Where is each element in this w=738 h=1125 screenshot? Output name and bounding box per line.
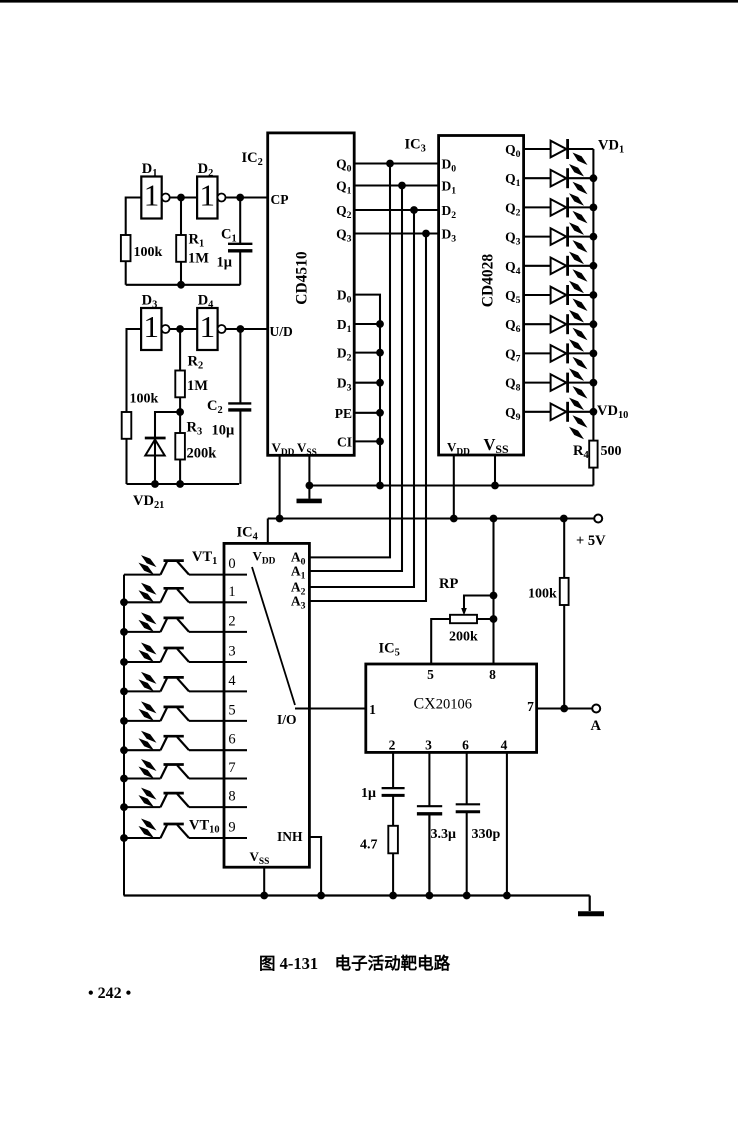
- phototransistor VT5: [124, 672, 247, 692]
- terminal +5V: [594, 515, 602, 523]
- capacitor C2 10u: [207, 329, 251, 484]
- op IC5 box CX20106: [366, 641, 537, 753]
- capacitor C1 1u: [217, 198, 253, 285]
- svg-text:4: 4: [501, 738, 508, 753]
- wire: bottom ground rail: [124, 894, 590, 896]
- phototransistor VT4: [124, 643, 247, 663]
- svg-text:1M: 1M: [188, 251, 209, 267]
- wire: IC4 VSS lead to ground rail: [263, 867, 265, 895]
- svg-text:1: 1: [200, 309, 216, 344]
- wire: IC3 VDD lead to +5V rail: [453, 455, 455, 519]
- resistor 100k (left of D1): [121, 235, 163, 261]
- IC3 Q0-Q9 pin labels: [505, 142, 521, 423]
- LED VD4: [524, 227, 594, 265]
- wire: IC5 pin8 lead up to +5V rail: [492, 519, 494, 665]
- svg-text:2: 2: [228, 613, 235, 629]
- wire: IC5 pin5 lead up to RP left: [431, 619, 450, 664]
- svg-text:1: 1: [144, 178, 160, 213]
- resistor 100k (left of D3): [122, 392, 159, 439]
- svg-text:RP: RP: [439, 576, 458, 592]
- resistor R1 1M: [176, 198, 209, 285]
- ground symbol (near IC2 VSS): [308, 486, 310, 499]
- wire: IC5 pin4 lead to ground rail: [506, 752, 508, 895]
- svg-text:200k: 200k: [449, 630, 478, 645]
- wire: phototransistor common left rail: [120, 575, 128, 896]
- wire: rail drop into IC4 VDD: [267, 519, 269, 544]
- svg-text:4: 4: [228, 673, 236, 689]
- capacitor 1u + resistor 4.7 on pin2: [360, 752, 405, 895]
- wire: D2 out to IC2 CP: [226, 196, 268, 198]
- svg-text:4.7: 4.7: [360, 838, 378, 853]
- svg-text:3: 3: [228, 644, 235, 660]
- svg-text:PE: PE: [335, 406, 352, 421]
- node: R2/R3/VD21 junction: [176, 408, 184, 416]
- wire: 100k bottom to osc2 rail: [125, 439, 127, 484]
- svg-text:3.3μ: 3.3μ: [431, 827, 457, 842]
- LED VD2: [524, 168, 594, 206]
- svg-text:7: 7: [228, 760, 235, 776]
- svg-text:CI: CI: [337, 434, 352, 449]
- wire: IC2 VSS lead down to VSS rail: [308, 455, 310, 485]
- svg-text:6: 6: [228, 732, 235, 748]
- phototransistor VT1: [124, 555, 247, 575]
- svg-text:100k: 100k: [134, 245, 163, 260]
- svg-text:0: 0: [228, 556, 235, 572]
- wire: IC2 Q3 to IC3 D3: [354, 232, 438, 234]
- wire: IC4 INH to ground rail: [309, 837, 321, 896]
- resistor R2 1M: [175, 329, 208, 412]
- resistor R3 200k: [175, 412, 217, 484]
- resistor 100k (pull-up to pin7): [528, 519, 569, 713]
- op IC4 box (analog multiplexer): [224, 525, 309, 868]
- gate D2 (inverter "1"): [197, 161, 225, 219]
- scan artifact: black top edge: [0, 0, 738, 3]
- wire: D1 input loop left via 100k: [126, 198, 142, 236]
- svg-text:CP: CP: [271, 192, 289, 207]
- svg-text:1: 1: [144, 309, 160, 344]
- LED VD10: [524, 402, 594, 440]
- LED VD1: [524, 139, 594, 177]
- LED VD5: [524, 256, 594, 293]
- svg-text:A: A: [591, 718, 602, 734]
- ground symbol (bottom right): [589, 896, 591, 912]
- LED VD7: [524, 314, 594, 352]
- wire: osc2 bottom rail: [127, 483, 240, 485]
- svg-text:CD4510: CD4510: [294, 251, 311, 305]
- svg-text:2: 2: [389, 738, 396, 753]
- svg-text:+ 5V: + 5V: [576, 533, 606, 549]
- svg-text:10μ: 10μ: [212, 423, 236, 439]
- wire: IC4 I/O to IC5 pin1: [295, 708, 366, 710]
- wire: D3 out to D4 in, node: [170, 328, 198, 330]
- wire: D3 input loop left via 100k: [127, 329, 142, 412]
- svg-text:1μ: 1μ: [217, 255, 233, 271]
- svg-text:1: 1: [228, 584, 235, 600]
- wire: Q0 bus down to IC4 A0: [309, 164, 390, 558]
- LED VD3: [524, 197, 594, 235]
- phototransistor VT9: [124, 788, 247, 808]
- svg-text:3: 3: [425, 738, 432, 753]
- svg-text:7: 7: [527, 699, 534, 714]
- wire: IC2 D0-D3/PE/CI common bus to VSS rail: [354, 295, 384, 486]
- svg-text:1: 1: [369, 702, 376, 717]
- wire: LED cathode rail: [590, 149, 598, 441]
- capacitor 3.3u on pin3: [417, 752, 456, 895]
- wire: VSS/ground rail (y=485.5): [309, 485, 593, 487]
- gate D3 (inverter "1"): [141, 293, 169, 351]
- gate D4 (inverter "1"): [197, 293, 225, 351]
- LED VD9: [524, 373, 594, 411]
- svg-text:CD4028: CD4028: [480, 254, 497, 308]
- IC4 selector diagonal: [252, 567, 295, 705]
- svg-text:1M: 1M: [187, 378, 208, 394]
- potentiometer RP 200k: [439, 576, 494, 645]
- phototransistor VT3: [124, 612, 247, 632]
- svg-text:1μ: 1μ: [361, 786, 376, 801]
- LED VD8: [524, 343, 594, 381]
- wire: IC2 VDD lead down to +5V rail: [279, 455, 281, 518]
- phototransistor VT8: [124, 759, 247, 779]
- svg-text:100k: 100k: [528, 587, 557, 602]
- wire: D1 out to D2 in, node: [170, 196, 197, 198]
- wire: Q1 bus down to IC4 A1: [309, 186, 402, 572]
- wire: IC5 pin7 to terminal A: [537, 708, 593, 710]
- op IC2 box CD4510: [242, 133, 355, 458]
- svg-text:8: 8: [489, 667, 496, 682]
- svg-text:500: 500: [601, 444, 622, 459]
- wire: D4 out to IC2 U/D: [226, 328, 268, 330]
- wire: IC2 Q0 to IC3 D0: [354, 162, 438, 164]
- LED VD6: [524, 285, 594, 323]
- wire: osc1 bottom rail: [126, 284, 241, 286]
- svg-text:5: 5: [427, 667, 434, 682]
- op IC3 box CD4028: [405, 136, 524, 458]
- wire: Q2 bus down to IC4 A2: [309, 210, 414, 587]
- svg-text:U/D: U/D: [270, 324, 294, 339]
- wire: Q3 bus down to IC4 A3: [309, 234, 426, 602]
- terminal A: [592, 705, 600, 713]
- wire: +5V rail (y=518.5): [268, 518, 594, 520]
- svg-text:INH: INH: [277, 829, 303, 844]
- svg-text:图 4-131 电子活动靶电路: 图 4-131 电子活动靶电路: [259, 953, 451, 973]
- wire: IC3 VSS lead to VSS rail: [494, 455, 496, 486]
- wire: IC2 Q2 to IC3 D2: [354, 209, 438, 211]
- svg-text:5: 5: [228, 702, 235, 718]
- gate D1 (inverter "1"): [141, 161, 169, 219]
- svg-text:100k: 100k: [130, 392, 159, 407]
- svg-text:200k: 200k: [187, 446, 218, 462]
- resistor R4 500: [573, 441, 622, 486]
- svg-text:1: 1: [200, 178, 216, 213]
- svg-text:330p: 330p: [472, 827, 501, 842]
- capacitor 330p on pin6: [456, 752, 501, 895]
- svg-text:6: 6: [462, 738, 469, 753]
- wire: 100k bottom to ground rail of osc1: [125, 261, 127, 285]
- svg-text:CX20106: CX20106: [414, 696, 472, 713]
- svg-text:• 242 •: • 242 •: [88, 985, 131, 1002]
- svg-text:I/O: I/O: [277, 712, 297, 727]
- svg-text:8: 8: [228, 789, 235, 805]
- phototransistor VT2: [124, 583, 247, 603]
- svg-text:9: 9: [228, 820, 235, 836]
- phototransistor VT10: [124, 819, 247, 839]
- phototransistor VT6: [124, 701, 247, 721]
- IC4 channel pin numbers 0-9: [228, 556, 236, 835]
- diode VD21: [133, 438, 166, 511]
- wire: IC2 Q1 to IC3 D1: [354, 184, 438, 186]
- phototransistor VT7: [124, 731, 247, 751]
